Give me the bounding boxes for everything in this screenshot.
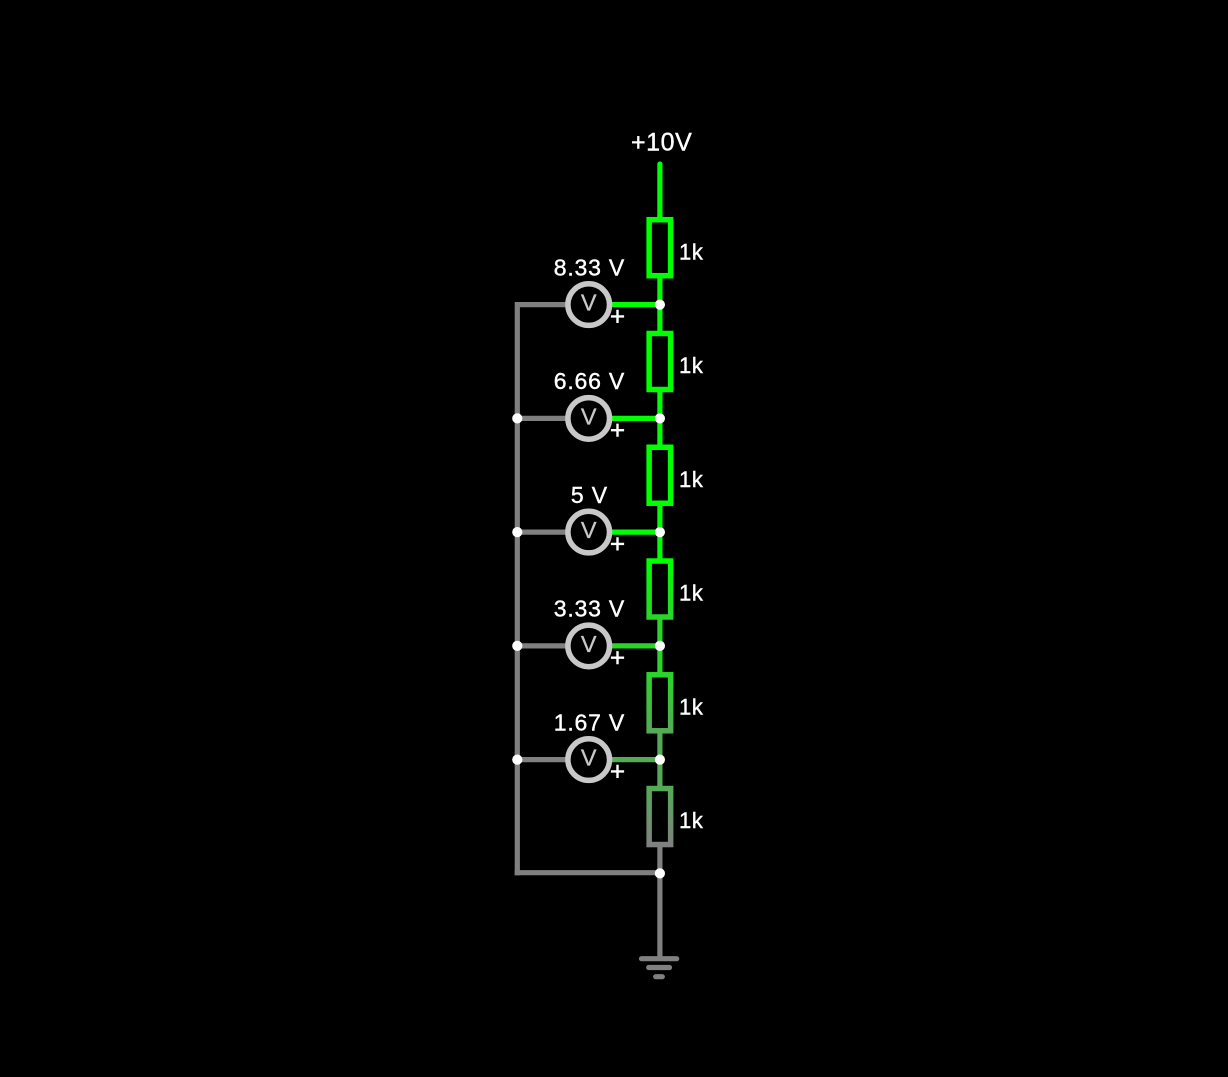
svg-text:5 V: 5 V bbox=[571, 482, 608, 508]
wire voltmeter M3 positive lead to node bbox=[611, 529, 660, 534]
svg-text:1k: 1k bbox=[679, 239, 704, 264]
node bus junction at M5 row bbox=[512, 755, 522, 765]
node bus junction at M3 row bbox=[512, 527, 522, 537]
svg-text:V: V bbox=[581, 517, 597, 543]
resistor R1 1k bbox=[649, 215, 671, 305]
svg-text:V: V bbox=[581, 745, 597, 771]
svg-text:3.33 V: 3.33 V bbox=[554, 596, 625, 622]
wire left bus vertical bbox=[515, 302, 520, 875]
wire +10V feed bbox=[657, 164, 662, 220]
resistor R3 1k bbox=[649, 418, 671, 532]
voltmeter M3 bbox=[568, 511, 624, 553]
node 6.66V junction on rail bbox=[655, 413, 665, 423]
wire ground stem bbox=[657, 873, 662, 961]
node bus junction at M2 row bbox=[512, 413, 522, 423]
wire voltmeter M4 positive lead to node bbox=[611, 643, 660, 648]
svg-text:6.66 V: 6.66 V bbox=[554, 368, 625, 394]
node 8.33V junction on rail bbox=[655, 300, 665, 310]
svg-text:1k: 1k bbox=[679, 467, 704, 492]
voltmeter M2 bbox=[568, 398, 624, 440]
resistor R6 1k bbox=[649, 760, 671, 874]
svg-text:8.33 V: 8.33 V bbox=[554, 254, 625, 280]
wire voltmeter M3 negative lead to bus bbox=[517, 529, 566, 534]
voltmeter M4 bbox=[568, 625, 624, 667]
voltmeter M5 bbox=[568, 739, 624, 781]
wire voltmeter M1 negative lead to bus bbox=[517, 302, 566, 307]
node 1.67V junction on rail bbox=[655, 755, 665, 765]
node 3.33V junction on rail bbox=[655, 641, 665, 651]
svg-text:1k: 1k bbox=[679, 353, 704, 378]
node 5V junction on rail bbox=[655, 527, 665, 537]
svg-text:1k: 1k bbox=[679, 694, 704, 719]
svg-text:1.67 V: 1.67 V bbox=[554, 709, 625, 735]
wire voltmeter M2 positive lead to node bbox=[611, 416, 660, 421]
svg-text:+10V: +10V bbox=[631, 128, 692, 156]
wire voltmeter M5 negative lead to bus bbox=[517, 757, 566, 762]
svg-text:1k: 1k bbox=[679, 808, 704, 833]
wire voltmeter M5 positive lead to node bbox=[611, 757, 660, 762]
svg-text:1k: 1k bbox=[679, 581, 704, 606]
wire voltmeter M2 negative lead to bus bbox=[517, 416, 566, 421]
node bus junction at M4 row bbox=[512, 641, 522, 651]
ground bbox=[642, 959, 677, 977]
resistor R2 1k bbox=[649, 305, 671, 419]
resistor R5 1k bbox=[649, 646, 671, 760]
resistor R4 1k bbox=[649, 532, 671, 646]
wire voltmeter M1 positive lead to node bbox=[611, 302, 660, 307]
svg-text:V: V bbox=[581, 403, 597, 429]
wire bottom return bbox=[515, 870, 660, 875]
svg-text:V: V bbox=[581, 631, 597, 657]
voltmeter M1 bbox=[568, 284, 624, 326]
svg-text:V: V bbox=[581, 290, 597, 316]
node 0V junction on rail bbox=[655, 868, 665, 878]
wire voltmeter M4 negative lead to bus bbox=[517, 643, 566, 648]
